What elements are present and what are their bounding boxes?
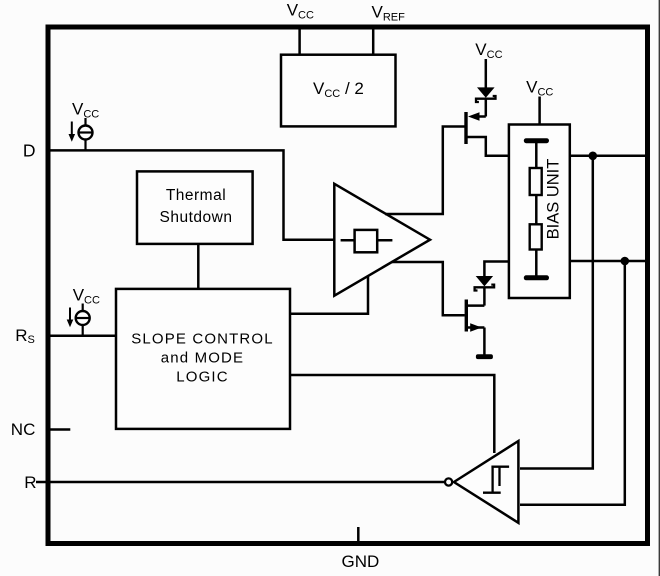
bias unit internal vertical wire [535,142,538,277]
wire VCC stub to Vcc/2 block [298,28,301,56]
bias unit internal rail top bar [524,138,549,143]
node junction top [589,152,598,161]
resistor R1 (bias) [530,168,542,195]
svg-text:GND: GND [342,552,380,571]
svg-text:D: D [23,140,36,160]
transistor Q2 channel bar [465,300,468,332]
block VCC/2 reference generator [281,55,396,127]
wire slope control to driver triangle [289,276,368,314]
wire R pin to receiver output bubble [36,481,446,484]
resistor R2 (bias) [530,224,542,249]
wire thermal shutdown to slope control [197,244,200,290]
transistor Q2 (lower NMOS): drain [467,304,484,307]
wire slope control to receiver enable [289,375,494,453]
image right edge rule [659,0,660,576]
diode D1 (schottky, upper) [477,87,495,97]
current source at D: arrow [71,122,73,136]
svg-text:NC: NC [11,420,36,439]
wire NC stub [50,428,70,431]
wire VCC to bias unit [538,97,541,127]
wire GND stub [357,527,360,542]
wire Rs pin to slope control block [50,334,117,337]
transistor Q1 channel bar [464,112,467,144]
inverter bubble [445,478,452,485]
wire junction bottom down to receiver [520,261,625,505]
wire bias bottom output to right pin [570,260,646,263]
receiver schmitt triangle U2 [454,441,519,523]
slew limiter square [355,230,378,252]
block SLOPE CONTROL and MODE LOGIC [116,289,290,429]
hysteresis symbol [483,467,509,493]
svg-text:Thermal: Thermal [166,187,226,204]
transistor Q2 source arrow [467,326,484,329]
bias unit internal rail bottom bar [524,275,549,280]
svg-text:R: R [24,473,36,492]
transistor Q1 drain to bias unit [467,137,510,156]
wire VREF stub to Vcc/2 block [372,28,375,56]
svg-text:BIAS UNIT: BIAS UNIT [544,159,562,240]
wire driver to lower transistor gate [392,262,465,315]
current source at Rs: arrow [69,308,71,321]
wire D input net: pin to driver input [50,150,336,239]
ground [476,354,493,359]
svg-text:LOGIC: LOGIC [176,368,228,385]
wire VCC to upper diode [485,59,488,89]
op-amp driver triangle [334,184,430,296]
diode D2 (schottky, lower) [476,276,493,286]
transistor Q1 (upper PMOS): source arrow [478,115,486,118]
block BIAS UNIT [509,125,570,299]
svg-text:and MODE: and MODE [161,349,244,366]
wire bias unit to lower diode [484,262,510,278]
svg-text:SLOPE CONTROL: SLOPE CONTROL [131,330,273,347]
wire junction top down to receiver [520,156,593,469]
block Thermal Shutdown [137,171,253,244]
svg-text:Shutdown: Shutdown [160,209,233,226]
wire bias top output to right pin [570,155,646,158]
slew limiter line through square [341,239,393,242]
current source at D: circle with bar [84,118,86,126]
current source at Rs: circle with bar [82,304,84,312]
node junction bottom [621,257,630,266]
wire driver to upper transistor gate [385,127,465,215]
